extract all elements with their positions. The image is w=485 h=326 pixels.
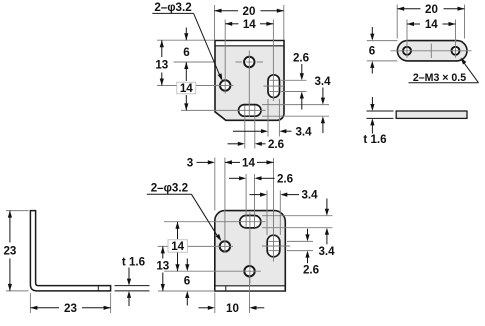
dimension 3.4 right B <box>318 199 335 258</box>
extension line L top <box>6 210 29 212</box>
svg-text:3.4: 3.4 <box>295 125 312 138</box>
dimension 6 plan <box>369 27 376 74</box>
extension line L bottom-left <box>6 290 29 292</box>
extension line right slot left edge <box>267 99 269 137</box>
center line bottom slot horizontal <box>181 109 266 111</box>
svg-text:10: 10 <box>226 302 239 315</box>
dimension 14 top B <box>225 157 274 170</box>
dimension 2.6 right <box>293 52 310 110</box>
svg-text:2.6: 2.6 <box>293 52 310 65</box>
svg-text:t 1.6: t 1.6 <box>122 255 146 268</box>
extension line B right slot right edge <box>279 191 281 236</box>
center line top hole horizontal <box>236 61 264 63</box>
svg-text:2.6: 2.6 <box>268 138 285 151</box>
bracket B bend flange band <box>215 286 285 291</box>
extension line plan top edge <box>367 40 398 42</box>
dimension 6 left <box>183 28 190 60</box>
svg-text:t 1.6: t 1.6 <box>363 133 387 146</box>
bracket A side view thin bar <box>396 111 467 118</box>
center line right slot horizontal <box>264 85 285 87</box>
extension line top hole level <box>174 61 215 63</box>
bracket B L-shape side view <box>30 211 110 291</box>
extension line right slot arc bottom <box>281 91 307 93</box>
svg-text:6: 6 <box>183 46 190 59</box>
svg-text:3: 3 <box>187 157 194 170</box>
svg-text:20: 20 <box>425 3 438 16</box>
svg-text:6: 6 <box>369 45 376 58</box>
extension line B top slot bottom edge <box>262 227 333 229</box>
svg-text:3.4: 3.4 <box>314 75 331 88</box>
hole bottom B <box>244 266 254 276</box>
extension line L leg right <box>110 293 112 313</box>
center line B top slot horizontal <box>164 221 266 223</box>
dimension 3.4 bottom <box>233 125 312 138</box>
svg-text:14: 14 <box>180 82 193 95</box>
svg-text:23: 23 <box>3 245 16 258</box>
center line plan hole right vertical <box>455 20 457 58</box>
center line B left hole vertical <box>224 158 226 253</box>
dimension 3 top <box>187 157 215 170</box>
extension line bottom slot bottom edge <box>262 115 329 117</box>
svg-text:2–φ3.2: 2–φ3.2 <box>154 1 191 14</box>
L-shape flange edge line <box>97 286 99 291</box>
dimension 23 vertical <box>3 211 16 291</box>
svg-text:3.4: 3.4 <box>318 245 335 258</box>
svg-text:14: 14 <box>243 18 256 31</box>
extension line B plate left edge top <box>214 158 216 211</box>
svg-text:2.6: 2.6 <box>277 172 294 185</box>
extension line left edge 20 dim <box>214 5 216 40</box>
center line plan horizontal <box>391 50 472 52</box>
extension line B right slot arc bottom <box>287 250 313 252</box>
center line B left hole horizontal <box>158 245 234 247</box>
extension line B bottom hole below <box>249 278 251 314</box>
dimension 14 top <box>225 18 273 31</box>
slot right vertical B <box>267 235 280 257</box>
label 2-phi3.2 leader <box>152 1 222 81</box>
svg-text:6: 6 <box>184 275 191 288</box>
dimension 13 left B <box>156 246 169 291</box>
dimension 2.6 right B <box>303 229 320 277</box>
bracket A bend flange band <box>215 41 284 45</box>
extension line B right slot left edge <box>266 191 268 236</box>
center mark right slot arc bottom <box>270 91 279 93</box>
extension line plate top left <box>157 39 215 41</box>
svg-text:20: 20 <box>243 5 256 18</box>
svg-text:3.4: 3.4 <box>301 189 318 202</box>
svg-text:14: 14 <box>425 18 438 31</box>
slot bottom horizontal <box>239 105 262 117</box>
center line left hole vertical <box>224 20 226 94</box>
center line B right slot horizontal <box>262 245 290 247</box>
dimension 10 bottom <box>199 302 265 315</box>
center mark B right slot arc bottom <box>269 250 280 252</box>
dimension t 1.6 side <box>363 97 393 146</box>
bracket A top view obround plate <box>397 41 467 61</box>
hole left (phi 3.2) <box>220 80 230 90</box>
center line B bottom hole horizontal <box>164 270 261 272</box>
svg-text:14: 14 <box>242 157 255 170</box>
svg-text:2–M3 × 0.5: 2–M3 × 0.5 <box>413 72 466 84</box>
extension line B right slot arc top <box>287 240 313 242</box>
extension line B top slot arc left <box>245 174 247 228</box>
center mark right slot arc top <box>270 79 279 81</box>
svg-text:13: 13 <box>155 59 168 72</box>
extension line plan left end <box>396 5 398 39</box>
dimension 6 left B <box>184 259 191 306</box>
slot top horizontal B <box>240 216 261 228</box>
dimension 14 plan <box>407 18 456 31</box>
label 2-phi3.2 leader B <box>147 181 222 241</box>
svg-text:14: 14 <box>171 240 184 253</box>
bracket B front view plate outline <box>215 211 285 291</box>
center mark B right slot arc top <box>269 240 280 242</box>
dimension 2.6 bottom <box>228 138 285 151</box>
extension line right slot right edge <box>278 99 280 137</box>
center line B right slot vertical <box>273 158 275 262</box>
hole top center <box>244 57 254 67</box>
dimension 23 horizontal <box>30 302 110 315</box>
dimension 14 left B <box>168 222 188 272</box>
tapped hole M3 left <box>403 47 411 55</box>
extension line B plate left below <box>214 293 216 314</box>
extension line bottom slot arc left <box>244 106 246 149</box>
dimension 20 plan <box>397 3 464 16</box>
svg-text:13: 13 <box>156 260 169 273</box>
dimension 3.4 top B <box>250 189 319 202</box>
center line plan hole left vertical <box>406 20 408 58</box>
dimension t 1.6 L <box>115 255 150 306</box>
extension line B top slot arc right <box>254 174 256 228</box>
center line left hole horizontal <box>157 85 234 87</box>
dimension 20 top <box>215 5 284 18</box>
extension line bottom slot top edge <box>262 104 329 106</box>
center line plate vertical <box>248 51 250 118</box>
extension line right slot arc top <box>281 79 307 81</box>
extension line B plate bottom edge <box>158 290 215 292</box>
extension line B top slot top edge <box>262 215 333 217</box>
svg-text:23: 23 <box>64 302 77 315</box>
extension line L leg left <box>29 293 31 313</box>
svg-text:2.6: 2.6 <box>303 264 320 277</box>
extension line plan bottom edge <box>367 60 398 62</box>
svg-text:2–φ3.2: 2–φ3.2 <box>151 181 188 194</box>
extension line bottom slot arc right <box>254 106 256 149</box>
bracket A front view plate outline <box>215 41 284 121</box>
slot right vertical <box>268 75 280 98</box>
dimension 3.4 right <box>314 75 331 133</box>
center line plan middle vertical <box>430 44 432 59</box>
dimension 2.6 top B <box>229 172 294 185</box>
center line right slot vertical <box>272 20 274 102</box>
dimension 13 left <box>155 40 168 85</box>
label 2-M3x0.5 leader <box>409 58 479 85</box>
extension line right edge 20 dim <box>283 5 285 40</box>
center line B plate vertical <box>249 213 251 284</box>
dimension 14 left <box>177 62 196 110</box>
hole left B (phi 3.2) <box>220 241 230 251</box>
tapped hole M3 right <box>452 47 460 55</box>
extension line plan right end <box>464 5 466 39</box>
